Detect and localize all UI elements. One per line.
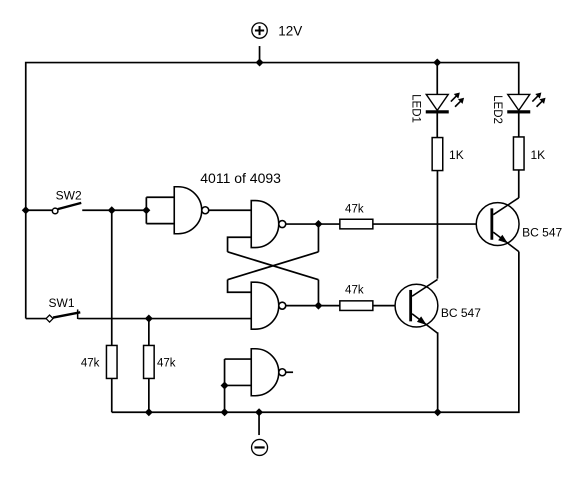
svg-text:47k: 47k <box>81 358 100 370</box>
wire: Q2 emitter drop and bottom ground rail <box>112 252 519 413</box>
svg-text:47k: 47k <box>157 358 176 370</box>
wire: LED2 1K resistor down to Q2 collector <box>518 170 520 198</box>
wire: LED1 cathode to 1K resistor <box>436 113 438 138</box>
wire: U1D input tie vertical <box>224 359 226 385</box>
node: SW1 / pull-down junction <box>145 315 153 323</box>
wire: SW1 node down to 47k pull-down resistor <box>148 319 150 346</box>
wire: U1A input tie vertical <box>145 197 147 223</box>
switch SW2 <box>52 203 81 214</box>
node: U1B output junction <box>314 220 322 228</box>
wire: ground rail to negative supply symbol <box>258 412 260 435</box>
wire: U1B lower input stub <box>228 237 252 252</box>
wire: SW2 to gate U1A tied inputs <box>82 209 146 211</box>
node: U1C output junction <box>314 302 322 310</box>
node: SW2 on left rail <box>22 206 30 214</box>
resistor 47k (SW2 pull-down) <box>106 345 117 378</box>
value 47k (Q1 base) <box>345 285 364 297</box>
svg-text:SW1: SW1 <box>49 296 75 310</box>
svg-text:4011 of 4093: 4011 of 4093 <box>200 170 281 186</box>
wire: 47k to Q2 base <box>373 223 491 225</box>
wire: U1A tie lower stub <box>146 223 174 225</box>
wire: left rail corner to SW1 pivot <box>26 318 46 320</box>
wire: U1A output to U1B upper input <box>209 209 252 211</box>
switch SW1 <box>46 309 80 322</box>
wire: 47k pull-down to ground rail <box>111 378 113 412</box>
svg-text:12V: 12V <box>278 23 302 38</box>
wire: left rail, top +12V rail, drop to LED2 <box>26 63 519 319</box>
nand gate U1A (inputs tied, 4011) <box>174 187 209 234</box>
wire: down to U1C upper input stub <box>228 280 252 293</box>
node: SW2 / pull-down junction <box>108 206 116 214</box>
svg-text:1K: 1K <box>449 148 464 162</box>
svg-text:LED1: LED1 <box>410 94 422 123</box>
resistor 1K (LED2) <box>513 137 524 170</box>
wire: 47k to Q1 base <box>373 305 409 307</box>
nand gate U1C (latch lower) <box>251 282 286 329</box>
wire: U1D output stub <box>286 371 293 373</box>
wire: U1B output node down <box>317 224 319 252</box>
transistor Q2 BC 547 (right) <box>476 198 519 252</box>
wire: top rail to LED1 anode <box>436 63 438 95</box>
node: +12V tap on top rail <box>256 59 264 67</box>
wire: U1B output to 47k base resistor <box>286 223 340 225</box>
svg-text:47k: 47k <box>345 203 364 215</box>
node: Q1 emitter on ground rail <box>434 408 442 416</box>
svg-text:47k: 47k <box>345 285 364 297</box>
wire: latch cross diagonal from U1B input to U1C output node <box>228 252 319 280</box>
node: U1A tied-input junction <box>142 206 150 214</box>
label 4011 of 4093 <box>200 170 281 186</box>
negative supply symbol <box>252 439 268 455</box>
value BC 547 (Q2) <box>522 226 562 240</box>
wire: LED2 cathode to 1K resistor <box>518 112 520 137</box>
resistor 47k (SW1 pull-down) <box>144 345 155 378</box>
label SW1 <box>49 296 75 310</box>
node: U1D tie junction <box>221 381 229 389</box>
label LED1 <box>410 94 422 123</box>
wire: U1D tie upper stub <box>225 358 252 360</box>
wire: left rail to SW2 pivot <box>26 209 53 211</box>
wire: latch cross diagonal from U1B output to U1C input <box>228 252 319 280</box>
node: U1D ground junction on rail <box>221 408 229 416</box>
wire: U1D tie lower stub <box>225 384 252 386</box>
value BC 547 (Q1) <box>441 306 481 320</box>
svg-text:1K: 1K <box>530 148 545 162</box>
node: LED1 branch on top rail <box>433 59 441 67</box>
label SW2 <box>56 188 82 202</box>
resistor 47k (Q1 base) <box>340 301 373 311</box>
wire: 47k pull-down to ground rail <box>148 378 150 412</box>
svg-text:SW2: SW2 <box>56 188 82 202</box>
label 12V <box>278 23 302 38</box>
nand gate U1D (unused, inputs grounded) <box>251 349 286 396</box>
LED1 <box>426 93 464 114</box>
svg-text:BC 547: BC 547 <box>441 306 481 320</box>
label LED2 <box>491 95 503 124</box>
wire: Q1 emitter drop to ground rail <box>437 332 439 412</box>
wire: U1C output to 47k base resistor <box>286 305 340 307</box>
value 1K (LED1) <box>449 148 464 162</box>
value 47k (Q2 base) <box>345 203 364 215</box>
LED2 <box>507 93 545 114</box>
node: 47k pull-down on ground rail <box>145 408 153 416</box>
wire: LED1 1K resistor down to Q1 collector <box>436 171 438 279</box>
wire: diagonal down to U1C output node <box>317 280 319 306</box>
wire: U1A tie upper stub <box>146 196 174 198</box>
+12V supply symbol <box>252 23 267 38</box>
value 47k (SW2 pull-down) <box>81 358 100 370</box>
wire: SW2 node down to 47k pull-down resistor <box>111 210 113 346</box>
wire: SW1 to gate U1C lower input <box>78 318 251 320</box>
transistor Q1 BC 547 (left) <box>395 279 438 333</box>
value 47k (SW1 pull-down) <box>157 358 176 370</box>
node: negative supply tap on rail <box>255 408 263 416</box>
resistor 1K (LED1) <box>432 138 443 171</box>
nand gate U1B (latch upper) <box>251 201 286 248</box>
svg-text:LED2: LED2 <box>491 95 503 124</box>
wire: U1D tied inputs to ground rail <box>224 385 226 412</box>
wire: +12V symbol stub <box>259 46 261 63</box>
svg-text:BC 547: BC 547 <box>522 226 562 240</box>
resistor 47k (Q2 base) <box>340 219 373 229</box>
value 1K (LED2) <box>530 148 545 162</box>
